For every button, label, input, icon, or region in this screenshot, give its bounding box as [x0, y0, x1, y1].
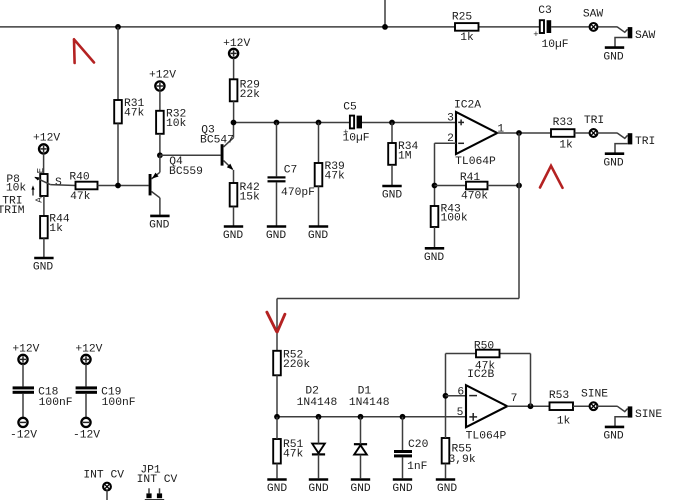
svg-text:GND: GND [603, 51, 624, 63]
wire feedback across [277, 298, 519, 300]
svg-text:GND: GND [308, 483, 329, 495]
wire collector node to C5 [234, 122, 350, 124]
svg-text:3,9k: 3,9k [449, 454, 476, 466]
connector pad SINE [581, 389, 608, 410]
svg-text:6: 6 [457, 387, 464, 399]
wire R32 to Q4 emitter node [159, 134, 161, 156]
svg-text:10k: 10k [166, 118, 187, 130]
wire node to D1 [360, 417, 362, 444]
svg-text:10µF: 10µF [342, 133, 369, 145]
svg-text:GND: GND [424, 252, 445, 264]
resistor R55 [442, 438, 476, 466]
svg-text:GND: GND [350, 483, 371, 495]
jumper JP1 (INT CV) [137, 465, 178, 500]
svg-text:+12V: +12V [12, 343, 39, 355]
wire R50 left [446, 353, 477, 355]
op-amp IC2A (TL064P) [447, 100, 504, 168]
svg-text:1N4148: 1N4148 [349, 397, 390, 409]
wire C20 to ground [402, 457, 404, 478]
wire C19 to -12V [85, 394, 87, 418]
resistor R44 [40, 214, 70, 239]
wire node to C7 [276, 123, 278, 177]
wire R44 to ground [43, 238, 45, 257]
junction R41 / R43 / pin2 [432, 183, 438, 189]
wire SAW pad to jack [597, 26, 617, 28]
+12V supply at R32 [149, 70, 176, 91]
svg-text:5: 5 [457, 407, 464, 419]
svg-text:470pF: 470pF [281, 187, 315, 199]
svg-text:BC547: BC547 [200, 135, 234, 147]
wire R42 to ground [233, 207, 235, 227]
junction output / R50 feedback [528, 403, 534, 409]
connector pad TRI [584, 115, 604, 137]
+12V supply at P8 [33, 133, 60, 154]
svg-text:TRI: TRI [584, 115, 604, 127]
svg-text:SINE: SINE [635, 409, 662, 421]
red annotation chevron mid-right [540, 166, 563, 188]
wire INT CV pad down [106, 490, 108, 500]
wire R34 to ground [391, 165, 393, 186]
svg-text:+: + [533, 30, 538, 40]
wire P8 wiper to R40 [50, 184, 75, 187]
wire R51 to ground [276, 464, 278, 479]
svg-text:47k: 47k [70, 191, 91, 203]
wire C5 to IC2A pin 3 [362, 122, 456, 124]
wire node to D2 [318, 417, 320, 444]
svg-text:S: S [55, 177, 62, 189]
capacitor C20 (1nF) [394, 439, 429, 473]
svg-text:GND: GND [308, 230, 329, 242]
wire R52 to bottom node row [276, 375, 278, 417]
red annotation arrow above R52 [267, 312, 285, 332]
resistor R40 [69, 171, 97, 203]
svg-text:TRI: TRI [635, 136, 655, 148]
wire R50 right [500, 353, 531, 355]
ground under C7 [266, 227, 287, 243]
wire R41 to output node [488, 185, 520, 187]
svg-text:22k: 22k [240, 89, 261, 101]
connector pad SAW [583, 9, 604, 31]
svg-text:C5: C5 [343, 102, 357, 114]
wire +12V to C19 [85, 364, 87, 387]
svg-text:R50: R50 [474, 341, 495, 353]
junction output / feedback [516, 130, 522, 136]
svg-text:D1: D1 [358, 385, 372, 397]
junction R34 branch [389, 120, 395, 126]
ground under R34 [382, 186, 403, 202]
wire Q4 node to Q3 base [160, 154, 221, 156]
svg-text:TL064P: TL064P [455, 156, 496, 168]
ground under D2 [308, 480, 329, 496]
wire top rail left [0, 26, 455, 28]
junction pin6 / R50 / R55 [443, 393, 449, 399]
svg-text:IC2A: IC2A [454, 100, 481, 112]
svg-text:10µF: 10µF [541, 39, 568, 51]
svg-text:GND: GND [437, 483, 458, 495]
resistor R43 [431, 204, 468, 227]
wire +12V to C18 [22, 364, 24, 387]
svg-text:C20: C20 [408, 439, 429, 451]
resistor R51 [273, 439, 303, 464]
wire R31 to R40 node [117, 123, 119, 185]
resistor R34 [388, 141, 418, 165]
red annotation arrow top-left [74, 39, 94, 63]
resistor R52 [273, 350, 310, 376]
junction top rail / stub [382, 24, 388, 30]
junction C7 branch [274, 120, 280, 126]
wire R55 to ground [445, 464, 447, 479]
svg-text:GND: GND [33, 262, 54, 274]
resistor R53 [549, 390, 573, 427]
wire IC2A pin 2 left [435, 142, 457, 144]
svg-text:GND: GND [223, 230, 244, 242]
wire R39 to ground [318, 186, 320, 226]
svg-text:GND: GND [267, 483, 288, 495]
svg-text:-12V: -12V [10, 430, 37, 442]
jack J-TRI [615, 133, 655, 153]
wire +12V to R32 [159, 91, 161, 111]
svg-text:-12V: -12V [73, 430, 100, 442]
svg-text:1k: 1k [559, 140, 573, 152]
svg-text:R40: R40 [69, 171, 90, 183]
ground under Q4 [149, 216, 170, 232]
wire node to R51 [276, 417, 278, 439]
wire to IC2B pin 6 [446, 395, 467, 397]
capacitor C19 (100nF) [76, 386, 136, 409]
capacitor C3 (polarized 10uF) [533, 5, 568, 51]
svg-text:GND: GND [603, 431, 624, 443]
ground under D1 [350, 480, 371, 496]
wire stub up from top rail [384, 0, 386, 27]
ground under C20 [392, 480, 413, 496]
junction C20 [400, 414, 406, 420]
jack J-SINE [615, 406, 662, 426]
svg-text:GND: GND [392, 483, 413, 495]
svg-text:47k: 47k [283, 449, 304, 461]
ground under R55 [436, 480, 458, 496]
resistor R39 [315, 161, 345, 186]
svg-text:1k: 1k [460, 32, 474, 44]
svg-text:C3: C3 [538, 5, 552, 17]
wire R33 to TRI pad [575, 132, 590, 134]
svg-text:220k: 220k [283, 359, 310, 371]
diode D2 (1N4148) [297, 385, 338, 454]
capacitor C5 (polarized 10uF) [342, 102, 369, 145]
junction R32 / Q4 emitter / Q3 base [157, 152, 163, 158]
+12V supply at C18 [12, 343, 39, 364]
ground under R39 [308, 227, 329, 243]
wire D1 to ground [360, 455, 362, 479]
svg-text:R25: R25 [452, 12, 473, 24]
resistor R25 [452, 12, 479, 44]
svg-text:GND: GND [382, 190, 403, 202]
ground of jack J-SINE [603, 427, 624, 443]
junction R40 / R31 [115, 183, 121, 189]
wire P8 to R44 [43, 196, 45, 216]
ground under R43 [424, 248, 445, 264]
svg-text:+12V: +12V [149, 70, 176, 82]
svg-text:47k: 47k [124, 108, 145, 120]
svg-text:GND: GND [603, 157, 624, 169]
wire R53 to SINE pad [573, 405, 590, 407]
svg-text:GND: GND [149, 220, 170, 232]
svg-text:R41: R41 [460, 172, 481, 184]
junction R39 branch [316, 120, 322, 126]
svg-text:15k: 15k [240, 192, 261, 204]
wire R50 down to output [530, 354, 532, 407]
svg-text:3: 3 [447, 113, 454, 125]
ground under R42 [223, 227, 244, 243]
wire bottom node row to IC2B pin 5 [277, 416, 466, 418]
capacitor C18 (100nF) [13, 386, 73, 409]
svg-text:GND: GND [266, 230, 287, 242]
junction top rail / R31 branch [115, 24, 121, 30]
svg-text:SAW: SAW [583, 9, 604, 21]
svg-text:INT CV: INT CV [83, 470, 124, 482]
potentiometer P8 (10k TRI TRIM) [0, 167, 62, 217]
wire node to R34 [391, 123, 393, 144]
resistor R33 [551, 117, 575, 152]
diode D1 (1N4148) [349, 385, 390, 454]
svg-text:100nF: 100nF [102, 397, 136, 409]
wire pin2 node down to R43 [434, 143, 436, 206]
ground under R51 [267, 480, 288, 496]
wire R29 to collector node [233, 101, 235, 122]
resistor R41 [460, 172, 488, 203]
svg-text:470k: 470k [461, 191, 488, 203]
wire SINE pad to jack [597, 405, 617, 407]
svg-text:SAW: SAW [635, 30, 656, 42]
junction R41 / feedback [516, 183, 522, 189]
svg-text:+12V: +12V [75, 343, 102, 355]
resistor R42 [230, 182, 260, 206]
resistor R50 [474, 341, 500, 373]
wire C18 to -12V [22, 394, 24, 418]
svg-text:1M: 1M [398, 151, 412, 163]
svg-text:100nF: 100nF [39, 397, 73, 409]
junction R29 / Q3 collector [231, 120, 237, 126]
resistor R29 [230, 79, 260, 101]
svg-text:R53: R53 [549, 390, 570, 402]
-12V supply at C19 [73, 418, 100, 442]
capacitor C7 (470pF) [268, 165, 315, 199]
wire pin2 node to R41 [435, 185, 467, 187]
svg-text:10k: 10k [6, 183, 27, 195]
svg-text:1: 1 [497, 124, 504, 136]
resistor R31 [114, 98, 144, 123]
svg-text:TRIM: TRIM [0, 205, 25, 217]
wire IC2B output to R53 [507, 405, 549, 407]
junction D1 [358, 414, 364, 420]
svg-text:47k: 47k [325, 171, 346, 183]
svg-text:1k: 1k [557, 415, 571, 427]
-12V supply at C18 [10, 418, 37, 442]
svg-text:+12V: +12V [223, 38, 250, 50]
wire D2 to ground [318, 454, 320, 478]
wire C3 to SAW pad [551, 26, 589, 28]
junction D2 [316, 414, 322, 420]
wire R40 to Q4 base [98, 185, 149, 187]
wire +12V to R29 [233, 58, 235, 79]
transistor Q4 (BC559 PNP) [149, 155, 203, 215]
wire top rail to C3 [479, 26, 540, 28]
+12V supply at C19 [75, 343, 102, 364]
wire top rail down to R31 [117, 27, 119, 100]
svg-text:SINE: SINE [581, 389, 608, 401]
ground of jack J-SAW [603, 48, 624, 64]
svg-text:E: E [35, 167, 46, 173]
svg-text:C7: C7 [284, 165, 298, 177]
wire +12V to P8 [43, 153, 45, 174]
wire output down to R41 node [518, 133, 520, 186]
resistor R32 [156, 109, 186, 134]
wire IC2A output to R33 [497, 132, 551, 134]
wire feedback down [518, 186, 520, 299]
transistor Q3 (BC547 NPN) [200, 123, 234, 184]
svg-text:BC559: BC559 [169, 166, 203, 178]
svg-text:1k: 1k [49, 223, 63, 235]
svg-text:7: 7 [511, 393, 518, 405]
svg-text:R33: R33 [553, 117, 574, 129]
jack J-SAW [615, 27, 656, 47]
svg-text:47k: 47k [475, 360, 496, 372]
wire TRI pad to jack [597, 132, 617, 134]
svg-text:+12V: +12V [33, 133, 60, 145]
ground under R44 [33, 258, 54, 274]
+12V supply at R29 [223, 38, 250, 58]
svg-text:TL064P: TL064P [466, 431, 507, 443]
wire feedback node down through row to R55 [445, 354, 447, 439]
wire feedback down to R52 [276, 299, 278, 351]
svg-text:100k: 100k [441, 213, 468, 225]
wire node to R39 [318, 123, 320, 164]
wire C7 to ground [276, 182, 278, 226]
svg-text:1nF: 1nF [407, 461, 427, 473]
junction R51 / R52 [274, 414, 280, 420]
wire R43 to ground [434, 227, 436, 248]
svg-text:D2: D2 [305, 385, 319, 397]
svg-text:1N4148: 1N4148 [297, 397, 338, 409]
svg-text:INT CV: INT CV [137, 474, 178, 486]
wire node to C20 [402, 417, 404, 450]
svg-text:A: A [34, 197, 45, 203]
op-amp IC2B (TL064P) [457, 369, 518, 443]
connector pad INT CV [83, 470, 124, 491]
ground of jack J-TRI [603, 154, 624, 170]
